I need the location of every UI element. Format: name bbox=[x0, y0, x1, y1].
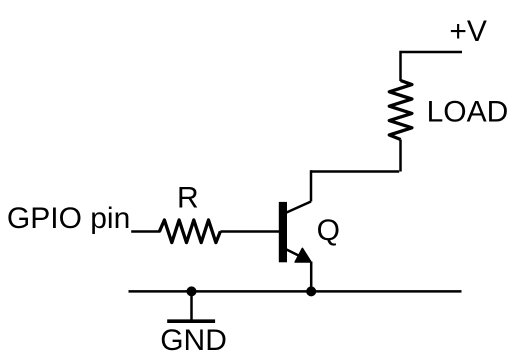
wire ground rail bbox=[129, 290, 462, 293]
wire load bottom horizontal to collector bbox=[311, 170, 399, 173]
wire GPIO pin to resistor R bbox=[131, 230, 160, 233]
wire resistor R to base bbox=[220, 230, 279, 233]
ground bar bbox=[167, 319, 215, 323]
svg-text:LOAD: LOAD bbox=[427, 95, 509, 128]
svg-text:+V: +V bbox=[449, 15, 487, 48]
junction dot GND stub bbox=[187, 286, 197, 296]
junction dot emitter bbox=[306, 286, 316, 296]
resistor R bbox=[160, 220, 221, 243]
wire GND stub vertical bbox=[190, 291, 193, 321]
svg-text:GND: GND bbox=[160, 324, 227, 357]
wire collector vertical bbox=[310, 170, 313, 201]
transistor Q emitter diagonal bbox=[287, 250, 311, 262]
wire collector diagonal to base bar bbox=[287, 202, 312, 213]
wire emitter vertical to ground rail bbox=[310, 262, 313, 292]
svg-text:GPIO pin: GPIO pin bbox=[7, 202, 130, 235]
wire load bottom vertical bbox=[399, 140, 402, 172]
wire load top vertical bbox=[399, 51, 402, 81]
svg-text:Q: Q bbox=[317, 214, 340, 247]
wire +V horizontal to load top bbox=[401, 51, 463, 54]
resistor LOAD bbox=[389, 81, 412, 140]
transistor Q base bar bbox=[279, 202, 287, 262]
svg-text:R: R bbox=[177, 181, 199, 214]
transistor Q emitter arrow bbox=[295, 248, 311, 262]
